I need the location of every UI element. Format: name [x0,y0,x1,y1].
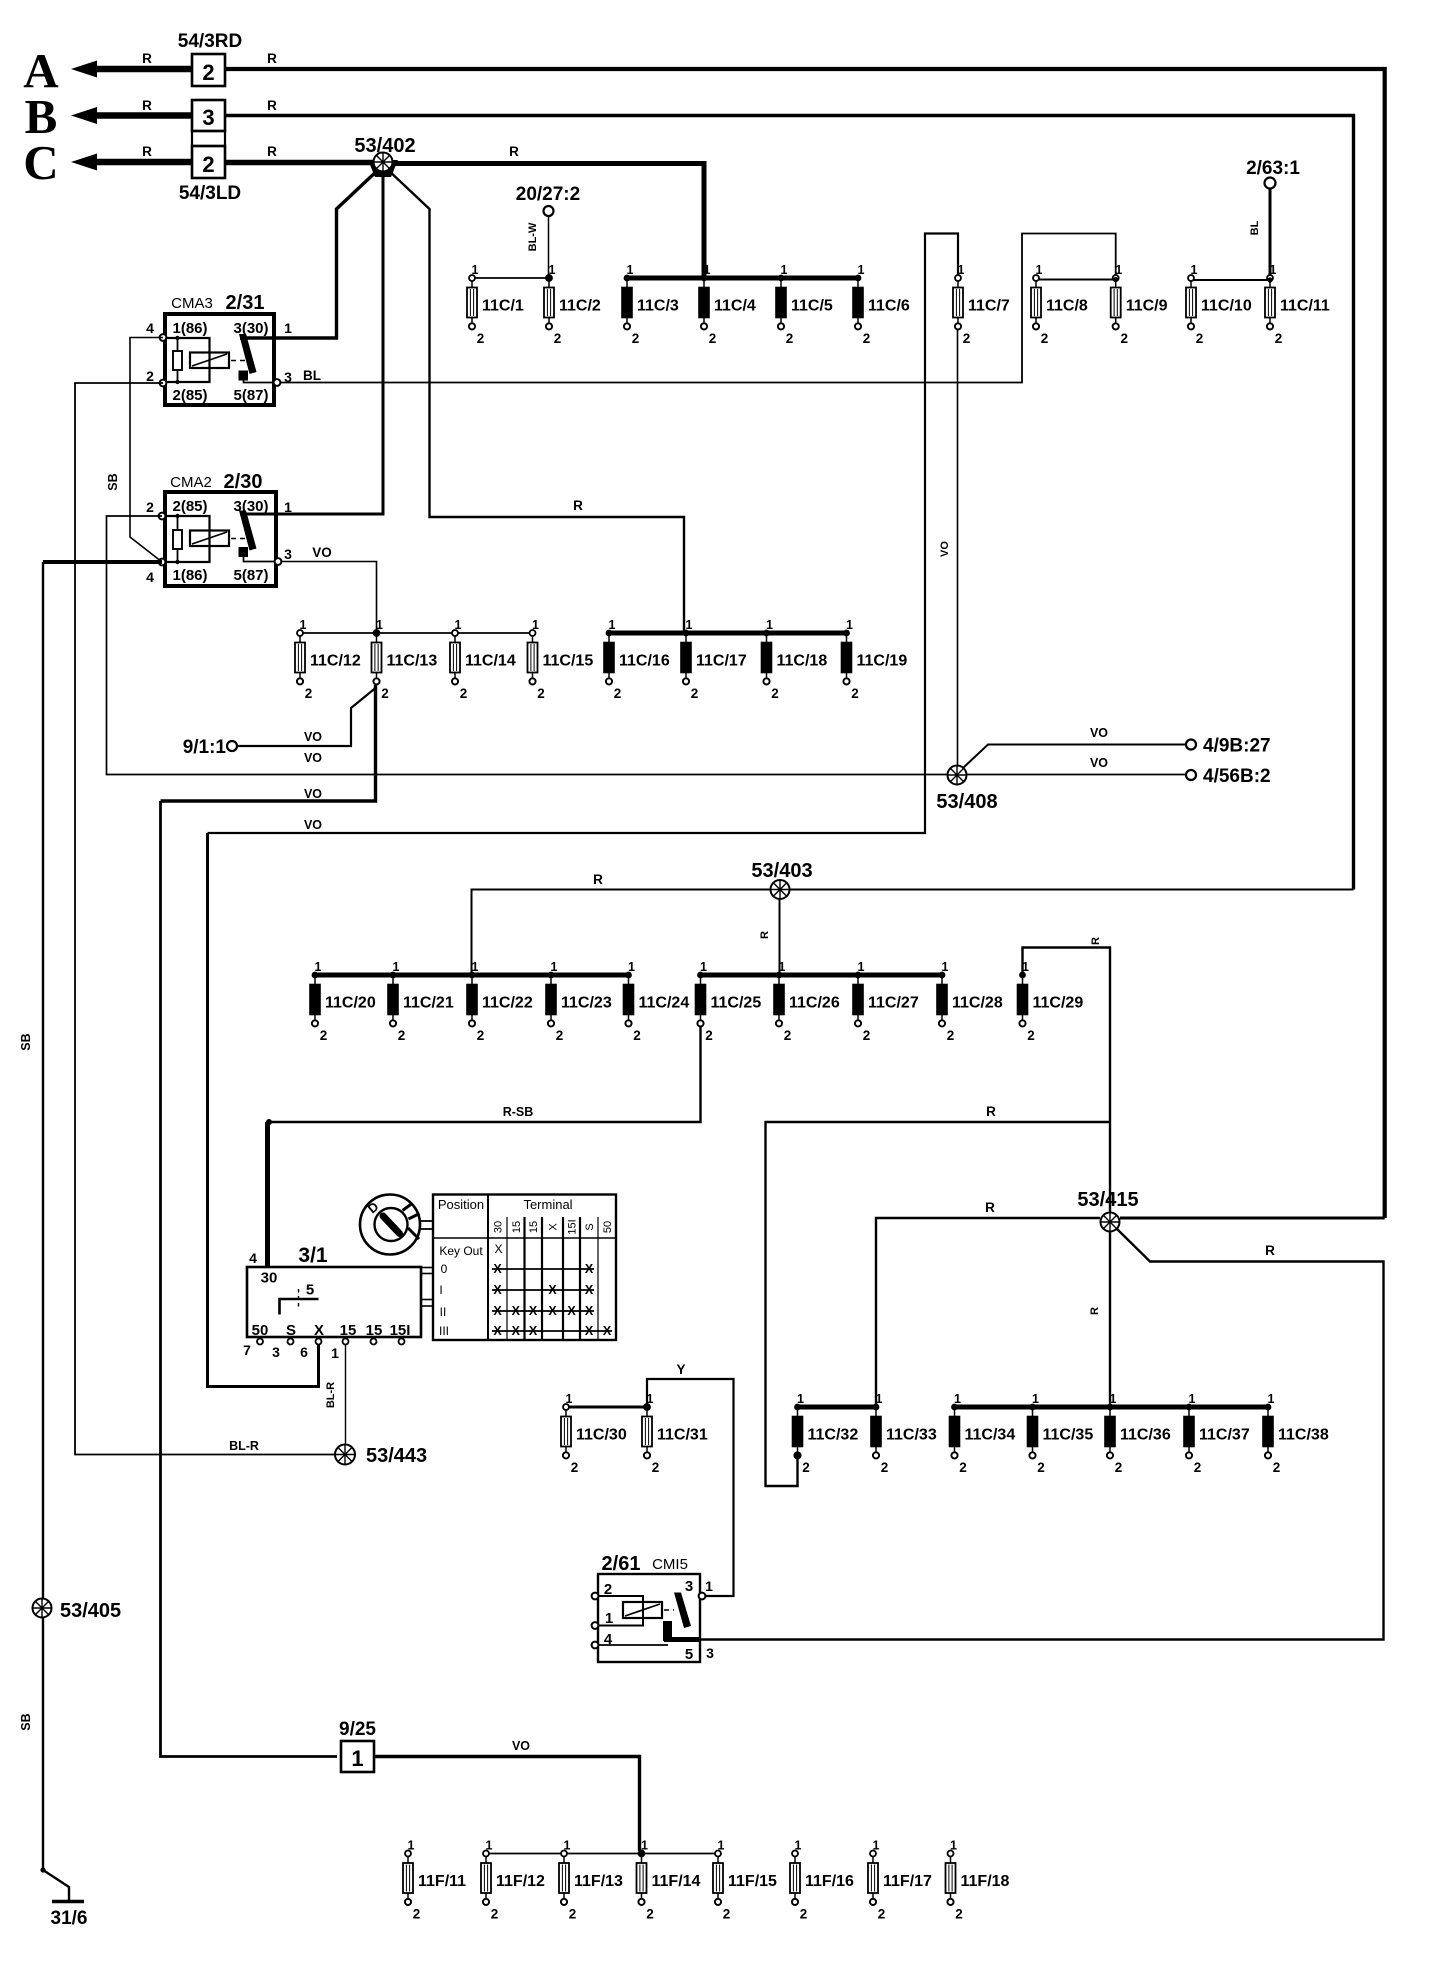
junction 11C/9 pin1 [1113,277,1118,282]
svg-text:2: 2 [571,1460,579,1475]
svg-text:11F/16: 11F/16 [805,1873,854,1890]
svg-text:15: 15 [511,1221,523,1233]
svg-text:2(85): 2(85) [172,387,207,404]
fuse 11C/14 [450,618,516,701]
svg-text:1: 1 [605,1610,613,1627]
wire BL-R ignition 15 to 53/443 [345,1344,347,1445]
terminal 20/27:2 [516,184,580,216]
svg-text:2: 2 [1115,1460,1123,1475]
wire 11C/7 pin1 to ignition X [208,234,959,834]
svg-text:9/1:1: 9/1:1 [183,737,227,758]
fuse 11C/3 [622,263,679,346]
svg-text:54/3RD: 54/3RD [178,31,242,52]
svg-text:11C/38: 11C/38 [1278,1427,1329,1444]
wire R 53/415 to 11C/33 [876,1218,1100,1407]
svg-text:2: 2 [491,1907,499,1922]
wire BL-W 20/27:2 to 11C/2 [548,216,550,278]
svg-text:2: 2 [947,1028,955,1043]
svg-text:50: 50 [252,1322,269,1339]
fuse 11F/14 [637,1839,701,1922]
svg-text:1: 1 [331,1345,339,1361]
svg-text:R: R [142,144,152,159]
fuse 11C/17 [681,618,747,701]
svg-text:4: 4 [146,569,154,585]
svg-text:BL-R: BL-R [325,1382,337,1408]
svg-text:2: 2 [556,1028,564,1043]
svg-text:11C/19: 11C/19 [857,653,908,670]
svg-text:2: 2 [477,331,485,346]
connector 54/3LD box 2 [192,146,225,178]
svg-text:Key Out: Key Out [439,1244,483,1258]
svg-text:X: X [494,1242,502,1256]
svg-text:2/31: 2/31 [226,292,265,314]
svg-text:2: 2 [1194,1460,1202,1475]
svg-text:3/1: 3/1 [298,1244,328,1267]
ignition switch 3/1 [243,1244,433,1361]
svg-text:11C/20: 11C/20 [325,995,376,1012]
svg-text:53/402: 53/402 [354,135,415,157]
svg-text:VO: VO [304,787,322,801]
svg-text:11C/13: 11C/13 [387,653,438,670]
wire R line-A right [225,69,1385,1218]
svg-text:VO: VO [512,1739,530,1753]
fuse 11C/20 [310,960,376,1043]
svg-text:2: 2 [537,686,545,701]
svg-text:SB: SB [19,1713,33,1730]
fuse 11C/30 [561,1392,627,1475]
svg-text:2: 2 [959,1460,967,1475]
connector 54/3 box 3 [192,100,225,131]
splice 53/403 [771,880,790,899]
svg-text:2: 2 [569,1907,577,1922]
wire R line-C to splice [225,160,378,166]
fuse 11C/8 [1031,263,1088,346]
wire X to ignition switch [208,833,319,1387]
svg-text:X: X [585,1324,594,1338]
svg-text:2: 2 [398,1028,406,1043]
svg-text:11C/9: 11C/9 [1126,298,1168,315]
fuse 11C/13 [372,618,438,701]
wire bus 11C/3-11C/6 [625,276,858,281]
fuse 11C/1 [467,263,524,346]
svg-text:2: 2 [1027,1028,1035,1043]
fuse 11C/18 [762,618,828,701]
svg-text:X: X [548,1223,560,1231]
wire VO CMA2 pin2 to 53/408 [107,516,1187,775]
svg-text:11C/34: 11C/34 [965,1427,1016,1444]
svg-text:11F/17: 11F/17 [883,1873,932,1890]
svg-text:11C/4: 11C/4 [714,298,756,315]
svg-text:2: 2 [202,152,214,177]
wire R branch to 11C/32 pin2 [766,1122,1111,1486]
fuse 11C/37 [1184,1392,1250,1475]
svg-text:11C/8: 11C/8 [1046,298,1088,315]
wire R 53/403 to 11C/22 [472,890,772,976]
svg-text:X: X [585,1262,594,1276]
svg-text:CMA2: CMA2 [170,474,212,491]
svg-text:1: 1 [284,499,292,515]
fuse 11C/6 [853,263,910,346]
svg-text:2: 2 [863,1028,871,1043]
svg-text:2: 2 [705,1028,713,1043]
svg-text:53/415: 53/415 [1077,1189,1138,1211]
svg-text:3: 3 [272,1344,280,1360]
svg-text:Terminal: Terminal [523,1197,572,1212]
fuse 11C/31 [642,1392,708,1475]
fuse 11C/28 [937,960,1003,1043]
svg-text:R: R [142,98,152,113]
svg-text:2: 2 [633,1028,641,1043]
svg-text:15I: 15I [567,1219,579,1234]
connector 9/25 [339,1719,376,1772]
svg-text:2: 2 [784,1028,792,1043]
fuse 11C/22 [467,960,533,1043]
wire R 11C/29 loop [1023,948,1111,1404]
svg-text:11C/26: 11C/26 [789,995,840,1012]
fuse 11C/34 [950,1392,1016,1475]
svg-text:15: 15 [366,1322,383,1339]
svg-text:2: 2 [881,1460,889,1475]
svg-text:R: R [509,144,519,159]
wire VO 9/25 to 11F/14 [374,1757,640,1852]
svg-text:2: 2 [709,331,717,346]
wire BL CMA3 pin3 to 11C/9 loop [280,234,1116,383]
svg-text:2: 2 [646,1907,654,1922]
svg-text:R: R [573,498,583,513]
svg-text:0: 0 [441,1262,448,1276]
svg-text:R: R [142,51,152,66]
fuse 11F/15 [713,1839,777,1922]
svg-text:11C/22: 11C/22 [482,995,533,1012]
wire VO 11C/13 pin2 to 9/25 [161,685,376,801]
fuse 11C/23 [546,960,612,1043]
svg-text:2/61: 2/61 [602,1553,641,1575]
wire R 53/403 to line-B [789,889,1354,891]
svg-text:31/6: 31/6 [51,1908,88,1929]
svg-text:Y: Y [676,1362,685,1377]
fuse 11F/11 [403,1839,466,1922]
svg-text:4: 4 [146,320,154,336]
fuse 11F/13 [559,1839,623,1922]
wire bus 11C/10-11C/11 [1191,279,1270,281]
terminal 2/63:1 [1246,158,1300,189]
svg-text:11C/3: 11C/3 [637,298,679,315]
svg-text:1: 1 [351,1746,363,1771]
svg-text:53/403: 53/403 [751,860,812,882]
wire bus 11C/25-11C/28 [701,973,943,978]
svg-text:11C/32: 11C/32 [808,1427,859,1444]
fuse 11F/16 [790,1839,854,1922]
junction 11C/2 pin1 [546,275,551,280]
fuse 11F/12 [481,1839,545,1922]
svg-text:1: 1 [705,1578,713,1594]
svg-text:9/25: 9/25 [339,1719,376,1740]
wire bus 11C/8-11C/9 [1036,279,1116,281]
fuse 11C/19 [842,618,908,701]
svg-text:3(30): 3(30) [233,498,268,515]
relay 2/61 CMI5 [592,1553,715,1663]
svg-text:X: X [585,1283,594,1297]
svg-text:11C/5: 11C/5 [791,298,833,315]
wire bus 11C/1-11C/2 [472,277,549,279]
svg-text:11C/14: 11C/14 [465,653,516,670]
terminal 4/9B:27 [1186,736,1271,757]
splice 53/402 [374,153,393,172]
connector arrow C [71,154,192,171]
svg-text:2: 2 [955,1907,963,1922]
svg-text:11C/16: 11C/16 [619,653,670,670]
fuse 11C/15 [528,618,594,701]
junction 11C/22 pin1 [469,972,475,978]
svg-text:15I: 15I [390,1322,411,1339]
svg-text:11C/27: 11C/27 [868,995,919,1012]
fuse 11C/16 [604,618,670,701]
fuse 11C/35 [1028,1392,1094,1475]
fuse 11C/33 [871,1392,937,1475]
svg-text:11C/33: 11C/33 [886,1427,937,1444]
junction 11C/32 pin2 [794,1453,800,1459]
svg-text:X: X [493,1324,502,1338]
junction 11C/13 pin1 [374,630,379,635]
svg-text:CMA3: CMA3 [171,295,213,312]
svg-text:VO: VO [304,818,322,832]
svg-text:BL: BL [303,368,321,383]
svg-text:2: 2 [146,368,154,384]
svg-text:2: 2 [851,686,859,701]
svg-text:4: 4 [249,1250,257,1266]
svg-text:R: R [267,98,277,113]
svg-text:2: 2 [878,1907,886,1922]
svg-text:C: C [23,135,58,190]
svg-text:2: 2 [202,60,214,85]
svg-text:R: R [267,144,277,159]
junction 11C/36 pin1 [1107,1404,1113,1410]
wire VO 53/408 to 4/9B:27 [963,745,1186,769]
wire bus 11C/12-11C/15 [300,632,533,634]
svg-text:I: I [439,1283,442,1297]
fuse 11C/36 [1105,1392,1171,1475]
svg-text:VO: VO [304,730,322,744]
svg-text:3: 3 [685,1578,693,1595]
svg-text:X: X [529,1304,538,1318]
svg-text:2: 2 [320,1028,328,1043]
svg-text:X: X [493,1283,502,1297]
fuse 11C/11 [1265,263,1330,346]
fuse 11C/2 [544,263,601,346]
svg-text:11C/10: 11C/10 [1201,298,1252,315]
svg-text:53/408: 53/408 [936,791,997,813]
ground 31/6 [40,1867,87,1929]
wire R line-B right [225,116,1354,890]
svg-text:R: R [267,51,277,66]
svg-text:11F/14: 11F/14 [652,1873,701,1890]
wire R 53/403 to 11C/26 [779,899,781,975]
svg-text:BL-W: BL-W [527,222,539,251]
wire CMA3 pin4 to CMA2 pin4 SB [130,338,163,563]
svg-text:2: 2 [802,1460,810,1475]
svg-text:2: 2 [1041,331,1049,346]
svg-text:R: R [1089,1307,1101,1315]
fuse 11C/24 [624,960,690,1043]
svg-text:11C/1: 11C/1 [482,298,524,315]
svg-text:4/56B:2: 4/56B:2 [1203,766,1271,787]
svg-text:6: 6 [300,1344,308,1360]
wire bus 11F/12-11F/15 [486,1853,718,1855]
svg-text:2: 2 [800,1907,808,1922]
fuse 11C/10 [1186,263,1252,346]
svg-text:11C/31: 11C/31 [657,1427,708,1444]
svg-text:30: 30 [493,1221,505,1233]
svg-text:2: 2 [691,686,699,701]
svg-text:R: R [1265,1243,1275,1258]
wire bus 11C/16-11C/19 [607,631,847,636]
fuse 11F/18 [946,1839,1010,1922]
svg-text:2: 2 [305,686,313,701]
splice 53/408 [948,766,967,785]
svg-text:R: R [593,872,603,887]
svg-text:11C/25: 11C/25 [711,995,762,1012]
svg-text:2: 2 [1120,331,1128,346]
svg-text:11F/15: 11F/15 [728,1873,777,1890]
svg-text:S: S [286,1322,296,1339]
svg-text:SB: SB [19,1033,33,1050]
svg-text:X: X [493,1262,502,1276]
svg-text:11C/2: 11C/2 [559,298,601,315]
svg-text:X: X [314,1322,324,1339]
wire bus 11C/20-11C/24 [315,973,629,978]
connector 54/3RD box 2 [192,54,225,86]
svg-text:50: 50 [602,1221,614,1233]
splice 53/443 [335,1445,355,1465]
svg-text:X: X [529,1324,538,1338]
fuse 11C/5 [776,263,833,346]
wire 11C/7 pin2 to splice 53/408 [957,330,959,772]
svg-text:11C/17: 11C/17 [696,653,747,670]
svg-text:X: X [548,1283,557,1297]
svg-text:7: 7 [243,1342,251,1358]
fuse 11C/25 [696,960,762,1043]
wire VO CMA2 pin3 to 11C/13 [281,562,377,634]
svg-text:2: 2 [786,331,794,346]
svg-text:X: X [493,1304,502,1318]
relay CMA2 2/30 [146,471,292,586]
svg-text:5(87): 5(87) [233,567,268,584]
svg-text:2: 2 [632,331,640,346]
svg-text:2(85): 2(85) [172,498,207,515]
connector arrow A [71,61,192,78]
svg-text:11C/24: 11C/24 [639,995,690,1012]
svg-text:X: X [567,1304,576,1318]
svg-text:R-SB: R-SB [503,1105,534,1119]
svg-text:2/30: 2/30 [224,471,263,493]
svg-text:11F/13: 11F/13 [574,1873,623,1890]
svg-text:2: 2 [146,499,154,515]
junction 11C/31 pin1 [644,1404,650,1410]
wire R splice to CMA2 pin1 [240,171,383,514]
svg-text:3: 3 [706,1645,714,1661]
svg-text:R: R [985,1200,995,1215]
svg-text:VO: VO [1090,726,1108,740]
wire R-SB 11C/25 pin2 to ignition 30 [269,1026,701,1122]
svg-text:2: 2 [614,686,622,701]
svg-text:2: 2 [771,686,779,701]
svg-text:3(30): 3(30) [233,320,268,337]
svg-text:11C/30: 11C/30 [576,1427,627,1444]
svg-text:11C/36: 11C/36 [1120,1427,1171,1444]
svg-text:2: 2 [652,1460,660,1475]
svg-text:11F/11: 11F/11 [418,1873,466,1890]
svg-text:SB: SB [106,473,120,490]
fuse 11C/29 [1018,960,1084,1043]
wire bus 11C/30-11C/31 [566,1406,647,1409]
svg-text:11C/28: 11C/28 [952,995,1003,1012]
junction 11C/11 pin1 [1267,277,1272,282]
splice 53/415 [1101,1213,1120,1232]
svg-text:11C/35: 11C/35 [1043,1427,1094,1444]
svg-text:2: 2 [863,331,871,346]
svg-text:2: 2 [1037,1460,1045,1475]
svg-text:2: 2 [413,1907,421,1922]
fuse 11C/27 [853,960,919,1043]
fuse 11C/26 [774,960,840,1043]
fuse 11C/12 [295,618,361,701]
wire CMA3 pin2 to 53/443 BL-R [75,383,335,1455]
junction 11F/14 pin1 [639,1851,644,1856]
svg-text:R: R [1090,937,1102,945]
svg-text:11C/37: 11C/37 [1199,1427,1250,1444]
svg-text:III: III [439,1324,449,1338]
junction 11C/26 pin1 [777,972,783,978]
svg-text:X: X [512,1304,521,1318]
svg-text:CMI5: CMI5 [652,1556,688,1573]
fuse 11C/21 [388,960,454,1043]
svg-text:R: R [986,1104,996,1119]
svg-text:11F/12: 11F/12 [496,1873,545,1890]
svg-text:2: 2 [1196,331,1204,346]
connector arrow B [71,107,192,124]
svg-text:5: 5 [306,1282,314,1299]
svg-text:5(87): 5(87) [233,387,268,404]
svg-text:BL-R: BL-R [229,1439,259,1453]
svg-text:11C/12: 11C/12 [310,653,361,670]
wire R 53/415 to line-A [1120,1217,1385,1220]
svg-text:11C/21: 11C/21 [403,995,454,1012]
svg-text:S: S [584,1223,596,1230]
wire BL 2/63:1 to 11C/11 [1269,189,1272,278]
wire R splice to 11C/4 [388,164,704,279]
wire bus 11C/34-11C/38 [955,1405,1269,1410]
svg-text:15: 15 [528,1221,540,1233]
fuse 11C/9 [1111,263,1168,346]
svg-text:11C/18: 11C/18 [777,653,828,670]
svg-text:2: 2 [477,1028,485,1043]
wire SB CMA2 pin4 to ground [43,560,162,564]
terminal 4/56B:2 [1186,766,1271,787]
key switch symbol [360,1195,433,1255]
svg-text:1(86): 1(86) [172,567,207,584]
splice 53/405 [33,1599,52,1618]
svg-text:1(86): 1(86) [172,320,207,337]
svg-text:11C/15: 11C/15 [543,653,594,670]
svg-text:R: R [759,931,771,939]
svg-text:2: 2 [460,686,468,701]
fuse 11C/7 [953,263,1010,346]
svg-text:2/63:1: 2/63:1 [1246,158,1300,179]
relay CMA3 2/31 [146,292,292,405]
svg-text:11C/11: 11C/11 [1280,298,1330,315]
svg-text:II: II [440,1305,447,1319]
svg-text:Position: Position [438,1197,484,1212]
